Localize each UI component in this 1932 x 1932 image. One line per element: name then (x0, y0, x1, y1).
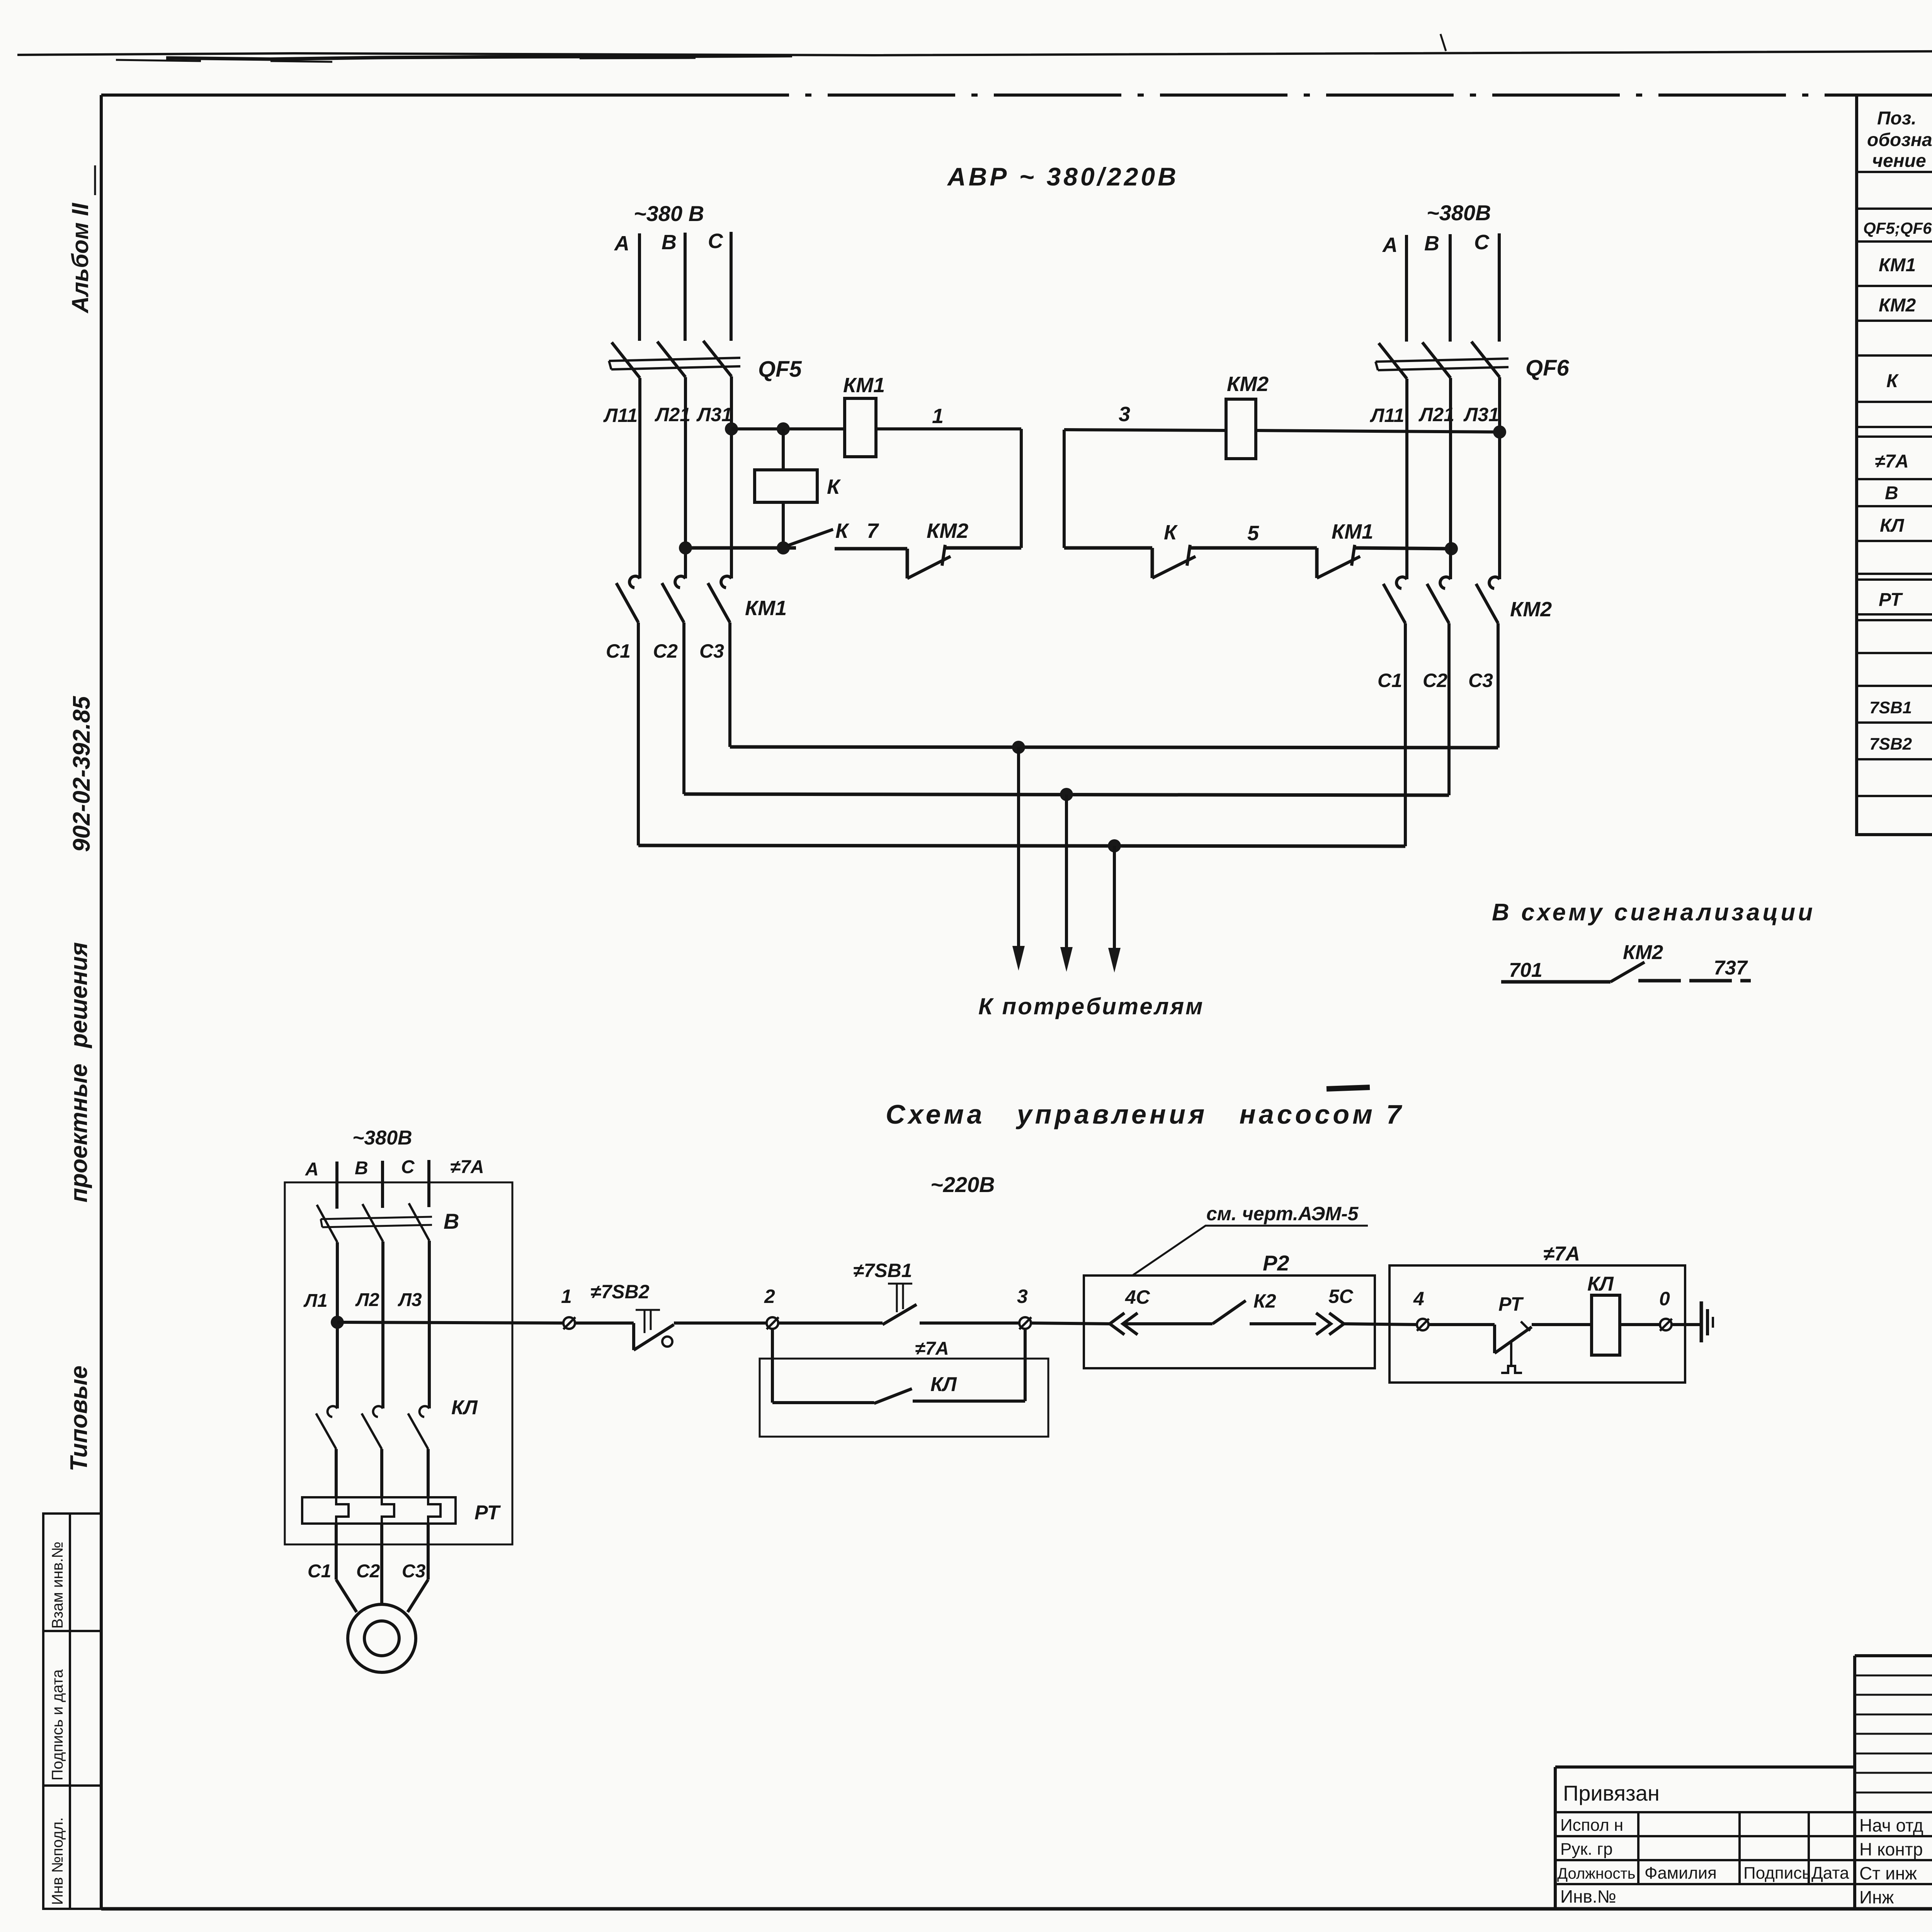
motor lead 1 (336, 1580, 357, 1612)
svg-text:С1: С1 (308, 1561, 331, 1582)
wire 1 horizontal (731, 427, 845, 430)
row RT (1879, 586, 1932, 610)
consumer feeder 2 (1060, 794, 1073, 972)
svg-text:3: 3 (1017, 1286, 1028, 1307)
svg-text:РТ: РТ (1498, 1293, 1524, 1315)
svg-text:В: В (1885, 483, 1898, 503)
wire phase B mid (684, 377, 687, 578)
svg-text:РТ: РТ (1879, 590, 1903, 610)
node 2 (767, 1317, 779, 1329)
svg-text:КМ2: КМ2 (927, 519, 968, 543)
privyazan row lines (1555, 1812, 1855, 1884)
scan artifact top line (17, 34, 1932, 62)
contact KM2 blade B (1427, 584, 1449, 623)
wire 1 corner drop (1020, 429, 1023, 548)
svg-text:КМ2: КМ2 (1623, 941, 1663, 964)
wire K coil top (782, 429, 785, 470)
contact KM2 blade C (1476, 584, 1498, 623)
svg-text:КЛ: КЛ (930, 1373, 957, 1396)
node 1 (563, 1317, 575, 1329)
contact K blade (787, 529, 833, 546)
motor M inner (364, 1621, 399, 1656)
horizontal line C2 (684, 794, 1449, 795)
KL holding branch bottom right (913, 1400, 1025, 1403)
node K branch junction (777, 422, 790, 435)
svg-text:КМ1: КМ1 (843, 374, 885, 397)
svg-text:К: К (1886, 371, 1899, 391)
svg-text:Поз.: Поз. (1877, 108, 1917, 129)
svg-text:В схему сигнализации: В схему сигнализации (1492, 899, 1815, 926)
bottom-left inventory stamp box (43, 1514, 101, 1909)
horizontal line C3 (730, 747, 1498, 748)
leader line AEM-5 (1133, 1226, 1368, 1275)
node 3 (1019, 1317, 1031, 1329)
frame top solid (101, 94, 662, 97)
thermal relay RT box (302, 1497, 456, 1524)
signal contact KM2 line 701 (1501, 980, 1611, 984)
svg-text:С: С (1474, 231, 1490, 254)
svg-text:К2: К2 (1253, 1290, 1276, 1312)
wire C1 motor (335, 1524, 338, 1580)
left bus segment (685, 546, 796, 550)
svg-text:Л11: Л11 (603, 405, 638, 426)
contact KL blade 3 (408, 1413, 428, 1449)
svg-text:С: С (401, 1157, 415, 1177)
svg-text:Должность: Должность (1557, 1865, 1636, 1882)
contactor coil KL (1592, 1295, 1620, 1355)
svg-text:737: 737 (1714, 957, 1748, 979)
wire 1 right of KM1 (876, 427, 1021, 430)
svg-text:КМ2: КМ2 (1510, 598, 1552, 621)
button 7SB1 (883, 1284, 917, 1325)
wire L1 (336, 1242, 339, 1408)
svg-text:КМ1: КМ1 (1332, 520, 1373, 543)
contact KL blade 2 (362, 1413, 382, 1449)
breaker QF6 (1376, 342, 1509, 379)
svg-text:Л21: Л21 (655, 404, 690, 425)
separator dash (1327, 1087, 1370, 1089)
wire 5C to node4 (1344, 1324, 1417, 1325)
frame top dash-dot (662, 94, 1932, 97)
svg-text:Н контр: Н контр (1859, 1839, 1923, 1859)
svg-text:~220В: ~220В (930, 1172, 995, 1197)
wire phase A mid (638, 378, 641, 578)
svg-text:Инв №подл.: Инв №подл. (49, 1817, 66, 1905)
wire node1 to 7SB2 (575, 1321, 634, 1325)
node consumer 3 (1108, 839, 1121, 852)
svg-text:Инж: Инж (1859, 1887, 1894, 1907)
contact KM2 NC tick (942, 545, 945, 566)
svg-text:QF6: QF6 (1526, 355, 1570, 381)
signal contact KM2 blade (1611, 962, 1645, 982)
svg-text:~380В: ~380В (1427, 201, 1491, 225)
wire L2 (381, 1242, 384, 1408)
privyazan block left (1554, 1767, 1557, 1909)
breaker QF5 (609, 341, 740, 378)
button 7SB2 (634, 1310, 674, 1350)
contact KM2 blade A (1383, 584, 1405, 623)
svg-text:КЛ: КЛ (1587, 1273, 1614, 1295)
control wire to node 1 (337, 1322, 564, 1323)
svg-text:С2: С2 (1423, 670, 1447, 691)
wire to RT 2 (380, 1449, 383, 1497)
svg-text:902-02-392.85: 902-02-392.85 (68, 696, 95, 852)
wire KL coil to node0 (1620, 1323, 1660, 1326)
motor lead 3 (408, 1580, 428, 1612)
starter cabinet box (285, 1182, 512, 1544)
node L31 junction (725, 422, 738, 435)
wire phase A right mid (1405, 379, 1408, 579)
svg-text:см. черт.АЭМ-5: см. черт.АЭМ-5 (1206, 1203, 1359, 1225)
contact KL blade 1 (316, 1413, 336, 1449)
node bus K (777, 541, 790, 554)
bus segment to B junction (1353, 548, 1451, 549)
contact KM1 NC drop (1315, 548, 1319, 578)
title block top border (1855, 1654, 1932, 1657)
node 0 (1660, 1319, 1672, 1331)
node 4 (1417, 1319, 1429, 1331)
RT heater element 1 (336, 1497, 349, 1524)
wire to RT 1 (335, 1449, 338, 1497)
svg-text:решения: решения (66, 942, 92, 1049)
svg-text:5С: 5С (1328, 1286, 1354, 1307)
wire 3 right of KM2 (1256, 430, 1500, 432)
contact K2 NC drop (1151, 548, 1154, 578)
chevron out right (1316, 1313, 1344, 1335)
wire node3 to P2 (1031, 1323, 1110, 1324)
wire phase B right top (1449, 234, 1452, 342)
sig grid thin rows (1855, 1675, 1932, 1793)
wire phase A top (638, 233, 641, 341)
terminal box P2 (1084, 1276, 1375, 1368)
wire phase B motor top (381, 1161, 384, 1208)
KL holding branch drop left (771, 1329, 774, 1403)
svg-text:С2: С2 (653, 640, 678, 662)
signal contact line 737 (1638, 979, 1751, 983)
svg-text:QF5;QF6: QF5;QF6 (1863, 219, 1932, 238)
svg-text:1: 1 (561, 1286, 572, 1307)
svg-text:2: 2 (764, 1286, 775, 1307)
svg-text:К потребителям: К потребителям (978, 993, 1204, 1019)
local box RT KL (1389, 1265, 1685, 1383)
bus segment to corner (944, 546, 1021, 550)
svg-text:QF5: QF5 (758, 357, 802, 382)
wire phase C mid (730, 376, 733, 578)
row KL (1880, 512, 1932, 536)
horizontal line C1 (638, 845, 1405, 846)
frame left (100, 95, 103, 1909)
contact KM2 hook A (1396, 577, 1407, 588)
svg-text:7: 7 (867, 519, 879, 543)
svg-text:С: С (708, 230, 723, 253)
wire phase C top (730, 232, 733, 341)
contact KM2 NC drop (906, 549, 909, 578)
wire C3 motor (427, 1524, 430, 1580)
svg-text:обозна-: обозна- (1867, 130, 1932, 150)
contactor coil KM2 (1226, 399, 1256, 459)
svg-text:А: А (614, 232, 629, 255)
wire node0 to end (1672, 1323, 1701, 1326)
svg-text:≠7SВ1: ≠7SВ1 (853, 1260, 912, 1281)
svg-text:АВР ~ 380/220В: АВР ~ 380/220В (947, 162, 1179, 191)
chevron in left (1110, 1313, 1138, 1335)
svg-text:В: В (444, 1209, 459, 1233)
wire phase B top (684, 233, 687, 341)
wire to RT 3 (427, 1449, 430, 1497)
wire node2 to 7SB1 (778, 1321, 883, 1325)
svg-text:В: В (355, 1158, 368, 1179)
svg-text:Л1: Л1 (303, 1291, 328, 1311)
svg-text:Фамилия: Фамилия (1645, 1864, 1717, 1883)
wire L3 (428, 1241, 431, 1408)
sig grid left edge (1853, 1656, 1856, 1909)
wire C2 motor (380, 1524, 383, 1580)
contact K2 blade (1213, 1301, 1246, 1324)
svg-text:4: 4 (1413, 1288, 1424, 1310)
row QF5 QF6 (1863, 212, 1932, 241)
svg-text:Л21: Л21 (1418, 404, 1454, 425)
wire 3 horizontal (1064, 430, 1226, 430)
svg-text:Р2: Р2 (1263, 1251, 1289, 1275)
row KM1 (1879, 253, 1932, 276)
svg-text:Взам инв.№: Взам инв.№ (49, 1541, 66, 1629)
svg-text:≠7SВ2: ≠7SВ2 (590, 1281, 650, 1303)
svg-text:~380 В: ~380 В (634, 201, 704, 226)
motor lead 2 (380, 1580, 383, 1604)
RT heater element 2 (382, 1497, 394, 1524)
svg-text:≠7А: ≠7А (450, 1157, 484, 1177)
svg-text:0: 0 (1659, 1288, 1670, 1310)
termination bars (1701, 1301, 1713, 1342)
contact KM1 hook C (721, 576, 731, 588)
row K (1886, 366, 1932, 391)
svg-text:1: 1 (932, 405, 944, 428)
bus segment K to KM1 (1189, 546, 1317, 550)
svg-text:А: А (1382, 233, 1398, 257)
consumer feeder 1 (1012, 747, 1025, 971)
svg-text:В: В (1424, 232, 1439, 255)
frame bottom (101, 1907, 1932, 1911)
motor M outer (348, 1604, 416, 1672)
svg-text:Схема управления насосом 7: Схема управления насосом 7 (886, 1099, 1404, 1129)
wire node4 to RT (1429, 1323, 1495, 1326)
right bus from corner (1064, 546, 1152, 550)
wire 7SB1 to node3 (920, 1321, 1020, 1325)
table outer border (1857, 95, 1932, 835)
node consumer 1 (1012, 741, 1025, 754)
svg-text:4С: 4С (1125, 1286, 1150, 1308)
node consumer 2 (1060, 788, 1073, 801)
svg-text:Нач отд: Нач отд (1859, 1815, 1923, 1835)
svg-text:≠7А: ≠7А (1543, 1243, 1580, 1265)
svg-text:Дата: Дата (1811, 1864, 1849, 1883)
wire C3 down (728, 622, 731, 747)
KL holding branch bottom left (772, 1401, 874, 1404)
svg-text:КЛ: КЛ (451, 1396, 478, 1419)
wire C1 right down (1404, 623, 1407, 846)
wire phase B right mid (1449, 378, 1452, 579)
bus segment K to KM2 (835, 547, 907, 551)
svg-text:701: 701 (1509, 959, 1543, 981)
wire C2 down (682, 622, 685, 794)
svg-text:С2: С2 (356, 1561, 380, 1582)
contact KM1 hook A (629, 576, 640, 588)
svg-text:Альбом II: Альбом II (67, 202, 93, 314)
contact KM2 hook C (1489, 577, 1500, 588)
contact KM1 blade A (616, 583, 638, 622)
wire phase A right top (1405, 235, 1408, 342)
svg-text:чение: чение (1872, 151, 1926, 171)
svg-text:КМ1: КМ1 (745, 597, 787, 620)
KL holding contact blade (874, 1389, 912, 1403)
svg-text:С1: С1 (1378, 670, 1402, 691)
svg-text:проектные: проектные (66, 1063, 92, 1202)
svg-text:КМ2: КМ2 (1879, 295, 1916, 316)
wire C1 down (637, 622, 640, 845)
svg-text:Подпись и дата: Подпись и дата (49, 1669, 66, 1781)
privyazan col lines (1638, 1812, 1809, 1884)
svg-text:Л2: Л2 (355, 1290, 379, 1310)
svg-text:3: 3 (1119, 403, 1130, 426)
wire phase C right mid (1498, 377, 1501, 579)
wire C2 right down (1447, 623, 1451, 795)
contactor coil KM1 (845, 398, 876, 457)
row 7SB2 (1869, 731, 1932, 754)
svg-text:7SВ1: 7SВ1 (1869, 698, 1912, 717)
svg-text:Привязан: Привязан (1563, 1781, 1660, 1805)
wire K coil bottom (782, 502, 785, 548)
wire phase C right top (1498, 233, 1501, 342)
privyazan block top (1555, 1765, 1855, 1769)
svg-text:Л3: Л3 (398, 1290, 422, 1310)
contact K2 NC tick (1187, 545, 1190, 566)
svg-text:Подпись: Подпись (1743, 1864, 1811, 1883)
svg-text:С3: С3 (402, 1561, 426, 1582)
contact KM1 blade C (708, 583, 730, 622)
svg-text:КЛ: КЛ (1880, 515, 1905, 536)
row 7SB1 (1869, 694, 1932, 718)
row V breaker (1885, 478, 1932, 507)
svg-text:Ст инж: Ст инж (1859, 1863, 1917, 1883)
svg-text:Л11: Л11 (1370, 405, 1404, 426)
row BOU 5130 (1875, 446, 1932, 472)
wire phase A motor top (335, 1162, 338, 1209)
svg-text:≠7А: ≠7А (915, 1338, 949, 1359)
RT heater element 3 (428, 1497, 440, 1524)
KL holding branch rise right (1024, 1329, 1027, 1401)
svg-text:С1: С1 (606, 640, 631, 662)
row KM2 (1879, 293, 1932, 316)
node bus B (679, 541, 692, 554)
wire 3 corner drop (1063, 430, 1066, 548)
node L1 tap (331, 1316, 344, 1329)
svg-text:Типовые: Типовые (66, 1366, 92, 1471)
contact KM1 blade B (662, 583, 684, 622)
contact K2 NC blade (1152, 556, 1196, 578)
contact KL hook 2 (373, 1406, 383, 1417)
wire phase C motor top (427, 1160, 430, 1207)
svg-text:К: К (835, 519, 850, 543)
contact KL hook 1 (328, 1406, 337, 1417)
wire 4C to K2 (1124, 1322, 1213, 1325)
svg-text:~380В: ~380В (352, 1127, 412, 1149)
svg-text:5: 5 (1247, 522, 1259, 545)
svg-text:РТ: РТ (474, 1502, 501, 1524)
consumer feeder 3 (1108, 846, 1121, 973)
svg-text:КМ1: КМ1 (1879, 255, 1916, 276)
svg-text:7SВ2: 7SВ2 (1869, 735, 1912, 753)
wire 7SB2 to node2 (674, 1321, 767, 1325)
wire K2 to 5C (1250, 1322, 1316, 1325)
header Poz oboznachenie (1867, 108, 1932, 171)
svg-text:≠7А: ≠7А (1875, 451, 1909, 472)
node L31 right junction (1493, 425, 1506, 439)
contact KM2 hook B (1440, 577, 1451, 588)
svg-text:К: К (827, 475, 841, 498)
contact KM1 NC blade (1317, 556, 1360, 578)
svg-text:Рук. гр: Рук. гр (1560, 1840, 1613, 1859)
svg-text:В: В (662, 231, 677, 254)
contact KM1 hook B (675, 576, 685, 588)
KL holding box (760, 1359, 1048, 1437)
breaker V (317, 1203, 432, 1242)
thermal contact RT (1495, 1321, 1532, 1373)
svg-text:КМ2: КМ2 (1227, 372, 1269, 396)
contact KL hook 3 (420, 1406, 429, 1417)
relay coil K (755, 470, 817, 502)
svg-text:А: А (305, 1159, 319, 1180)
contact KM1 NC tick (1352, 545, 1355, 566)
svg-text:Л31: Л31 (1463, 404, 1499, 425)
svg-text:К: К (1164, 521, 1178, 544)
wire RT to KL coil (1532, 1323, 1592, 1326)
svg-text:Испол н: Испол н (1560, 1816, 1623, 1835)
contact KM2 NC blade (907, 556, 951, 578)
svg-text:С3: С3 (1468, 670, 1493, 691)
svg-text:С3: С3 (699, 640, 724, 662)
svg-text:Л31: Л31 (696, 404, 732, 425)
table row lines (1857, 172, 1932, 796)
sig row lines (1855, 1812, 1932, 1884)
wire C3 right down (1497, 623, 1500, 748)
svg-text:Инв.№: Инв.№ (1560, 1886, 1616, 1906)
node bus B right (1445, 542, 1458, 555)
